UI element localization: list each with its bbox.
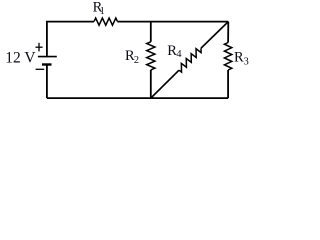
svg-text:3: 3: [244, 57, 249, 68]
wire right edge top: [227, 22, 229, 43]
wire top-left segment: [47, 22, 94, 57]
wire bottom: [47, 97, 228, 99]
svg-text:12 V: 12 V: [5, 49, 36, 66]
battery negative plate: [42, 63, 52, 65]
svg-text:4: 4: [176, 49, 181, 60]
svg-text:1: 1: [100, 6, 105, 17]
battery positive plate: [38, 56, 57, 58]
resistor R3: [224, 43, 231, 71]
resistor R1: [94, 18, 118, 25]
resistor R4: [179, 48, 201, 72]
wire left edge bottom: [46, 65, 48, 99]
battery minus sign: [36, 68, 45, 70]
wire diagonal upper segment: [201, 22, 228, 49]
svg-text:R: R: [234, 50, 244, 66]
wire diagonal lower segment: [151, 70, 179, 98]
resistor R2: [147, 42, 155, 70]
battery plus sign: [36, 43, 43, 52]
svg-text:2: 2: [134, 55, 139, 66]
wire right edge bottom: [227, 70, 229, 98]
wire top-right segment: [118, 21, 229, 23]
wire middle vertical top: [150, 22, 152, 42]
wire middle vertical bottom: [150, 70, 152, 98]
